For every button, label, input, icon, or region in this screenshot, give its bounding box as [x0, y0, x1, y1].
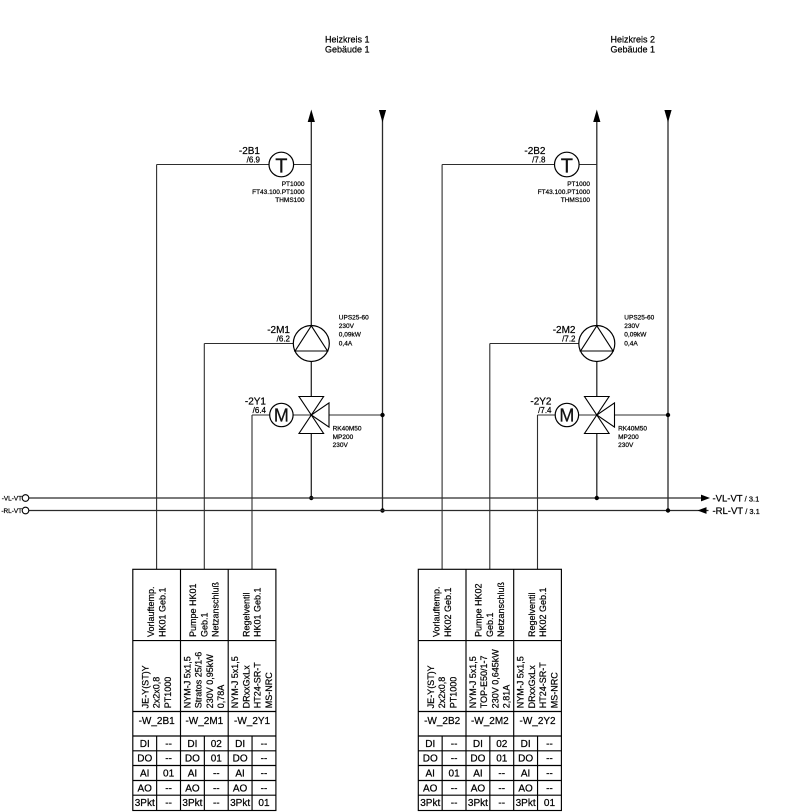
- svg-text:Heizkreis 1: Heizkreis 1: [325, 34, 370, 44]
- svg-text:230V: 230V: [618, 442, 634, 449]
- arrow up, supply flow direction circuit 1: [308, 110, 315, 123]
- svg-text:HT24-SR-T: HT24-SR-T: [538, 662, 548, 709]
- junction valve line / return pipe circuit 2: [666, 413, 670, 417]
- svg-text:NYM-J 5x1,5: NYM-J 5x1,5: [516, 656, 526, 708]
- svg-text:AO: AO: [518, 783, 533, 794]
- svg-text:02: 02: [211, 739, 223, 750]
- svg-text:--: --: [546, 754, 553, 765]
- svg-text:--: --: [498, 768, 505, 779]
- svg-text:DRxxGxLx: DRxxGxLx: [241, 665, 251, 709]
- svg-text:230V 0,95kW: 230V 0,95kW: [205, 654, 215, 709]
- svg-text:DI: DI: [521, 739, 531, 750]
- svg-text:Regelventil: Regelventil: [527, 592, 537, 637]
- temperature sensor -2B2: [555, 152, 580, 177]
- svg-text:MP200: MP200: [618, 434, 639, 441]
- svg-text:0,09kW: 0,09kW: [339, 332, 362, 339]
- svg-text:--: --: [261, 783, 268, 794]
- svg-text:T: T: [561, 156, 573, 178]
- svg-text:HK02 Geb.1: HK02 Geb.1: [443, 587, 453, 637]
- svg-text:3Pkt: 3Pkt: [182, 798, 202, 809]
- svg-text:01: 01: [258, 798, 270, 809]
- svg-text:Regelventil: Regelventil: [241, 592, 251, 637]
- wire supply pipe 2 (vertical, to -VL-VT): [596, 121, 598, 498]
- svg-text:2x2x0,8: 2x2x0,8: [437, 677, 447, 709]
- svg-text:MS-NRC: MS-NRC: [549, 672, 559, 708]
- svg-text:AI: AI: [426, 768, 435, 779]
- svg-text:FT43.100.PT1000: FT43.100.PT1000: [252, 189, 305, 196]
- svg-text:Pumpe HK02: Pumpe HK02: [474, 583, 484, 637]
- svg-text:/6.2: /6.2: [277, 334, 291, 343]
- svg-text:PT1000: PT1000: [567, 181, 590, 188]
- svg-text:DO: DO: [137, 754, 152, 765]
- svg-text:--: --: [165, 739, 172, 750]
- svg-text:DO: DO: [518, 754, 533, 765]
- svg-text:DI: DI: [473, 739, 483, 750]
- wire valve cable -W_2Y1 horizontal segment: [252, 414, 270, 416]
- junction return pipe 1 / -RL-VT: [380, 508, 384, 512]
- svg-text:-W_2Y2: -W_2Y2: [519, 716, 556, 727]
- svg-text:--: --: [546, 783, 553, 794]
- svg-text:HK01 Geb.1: HK01 Geb.1: [157, 587, 167, 637]
- svg-text:01: 01: [449, 768, 461, 779]
- arrow -RL-VT from sheet 3.1: [698, 507, 707, 514]
- svg-text:AO: AO: [471, 783, 486, 794]
- svg-text:AO: AO: [423, 783, 438, 794]
- svg-text:AI: AI: [235, 768, 244, 779]
- svg-text:-W_2M2: -W_2M2: [471, 716, 509, 727]
- arrow -VL-VT to sheet 3.1: [701, 495, 710, 502]
- wire sensor to supply pipe: [579, 164, 597, 166]
- net -RL-VT main return line: [29, 510, 709, 512]
- svg-text:--: --: [261, 754, 268, 765]
- svg-text:THMS100: THMS100: [275, 197, 305, 204]
- wire sensor cable -W_2B1 vertical drop to table: [156, 165, 158, 570]
- svg-text:/7.8: /7.8: [532, 155, 546, 164]
- svg-text:01: 01: [496, 754, 508, 765]
- wire sensor cable -W_2B2 vertical drop to table: [441, 165, 443, 570]
- svg-text:DO: DO: [185, 754, 200, 765]
- svg-text:Gebäude 1: Gebäude 1: [325, 45, 370, 55]
- svg-text:0,78A: 0,78A: [216, 685, 226, 709]
- wire valve to return pipe: [329, 414, 383, 416]
- svg-text:--: --: [213, 783, 220, 794]
- junction valve line / return pipe circuit 1: [380, 413, 384, 417]
- svg-text:HK01 Geb.1: HK01 Geb.1: [253, 587, 263, 637]
- svg-text:DI: DI: [425, 739, 435, 750]
- svg-text:PT1000: PT1000: [448, 677, 458, 709]
- svg-text:--: --: [546, 768, 553, 779]
- svg-text:/7.2: /7.2: [562, 334, 576, 343]
- svg-text:AI: AI: [188, 768, 197, 779]
- wire valve to return pipe: [615, 414, 669, 416]
- svg-text:NYM-J 5x1,5: NYM-J 5x1,5: [230, 656, 240, 708]
- svg-text:DI: DI: [235, 739, 245, 750]
- svg-text:Geb.1: Geb.1: [485, 612, 495, 637]
- svg-text:--: --: [451, 739, 458, 750]
- svg-text:MP200: MP200: [333, 434, 354, 441]
- svg-text:T: T: [275, 156, 287, 178]
- svg-text:AO: AO: [233, 783, 248, 794]
- svg-text:01: 01: [544, 798, 556, 809]
- svg-text:Netzanschluß: Netzanschluß: [496, 581, 506, 637]
- svg-text:01: 01: [211, 754, 223, 765]
- svg-text:UPS25-60: UPS25-60: [339, 315, 369, 322]
- svg-text:RK40M50: RK40M50: [618, 426, 647, 433]
- svg-text:UPS25-60: UPS25-60: [624, 315, 654, 322]
- arrow up, supply flow direction circuit 2: [593, 110, 600, 123]
- svg-text:DO: DO: [470, 754, 485, 765]
- net -VL-VT main supply line: [29, 497, 702, 499]
- svg-text:DRxxGxLx: DRxxGxLx: [527, 665, 537, 709]
- svg-text:3Pkt: 3Pkt: [230, 798, 250, 809]
- svg-text:--: --: [213, 798, 220, 809]
- svg-text:M: M: [274, 405, 289, 425]
- svg-text:NYM-J 5x1,5: NYM-J 5x1,5: [183, 656, 193, 708]
- wire valve cable -W_2Y1 vertical drop to table: [251, 415, 253, 569]
- svg-text:RK40M50: RK40M50: [333, 426, 362, 433]
- svg-text:-RL-VT: -RL-VT: [1, 508, 22, 515]
- valve -2Y1 (3-way mixing valve): [299, 397, 324, 416]
- svg-text:/7.4: /7.4: [538, 406, 552, 415]
- svg-text:Pumpe HK01: Pumpe HK01: [188, 583, 198, 637]
- svg-text:--: --: [498, 798, 505, 809]
- svg-text:-W_2B2: -W_2B2: [424, 716, 461, 727]
- wire valve actuator to valve body: [579, 414, 597, 416]
- svg-text:AO: AO: [185, 783, 200, 794]
- svg-text:0,4A: 0,4A: [624, 340, 638, 347]
- svg-text:0,4A: 0,4A: [339, 340, 353, 347]
- wire pump cable -W_2M1 vertical drop to table: [203, 344, 205, 570]
- wire return pipe 2 (vertical, to -RL-VT): [667, 111, 669, 511]
- svg-text:AI: AI: [140, 768, 149, 779]
- svg-text:Geb.1: Geb.1: [199, 612, 209, 637]
- wire pump cable -W_2M1 horizontal segment: [204, 343, 293, 345]
- svg-text:2x2x0,8: 2x2x0,8: [152, 677, 162, 709]
- svg-text:3Pkt: 3Pkt: [468, 798, 488, 809]
- junction supply pipe 1 / -VL-VT: [309, 496, 313, 500]
- svg-text:--: --: [451, 798, 458, 809]
- svg-text:-W_2B1: -W_2B1: [139, 716, 176, 727]
- svg-text:JE-Y(ST)Y: JE-Y(ST)Y: [140, 665, 150, 708]
- svg-text:DO: DO: [423, 754, 438, 765]
- cable table HK01: [133, 569, 276, 810]
- wire sensor to supply pipe: [294, 164, 312, 166]
- terminal circle -RL-VT left: [22, 507, 29, 514]
- valve -2Y2 (3-way mixing valve): [585, 397, 610, 416]
- svg-text:01: 01: [163, 768, 175, 779]
- svg-text:PT1000: PT1000: [163, 677, 173, 709]
- svg-text:--: --: [451, 754, 458, 765]
- svg-text:--: --: [165, 798, 172, 809]
- temperature sensor -2B1: [269, 152, 294, 177]
- svg-text:DI: DI: [140, 739, 150, 750]
- pump -2M1 (circle with triangle): [293, 326, 329, 362]
- svg-text:--: --: [165, 754, 172, 765]
- svg-text:230V: 230V: [333, 442, 349, 449]
- pump -2M2 (circle with triangle): [579, 326, 615, 362]
- svg-text:DO: DO: [233, 754, 248, 765]
- svg-text:-VL-VT: -VL-VT: [2, 496, 22, 503]
- svg-text:230V 0,645kW: 230V 0,645kW: [490, 649, 500, 709]
- svg-text:HK02 Geb.1: HK02 Geb.1: [538, 587, 548, 637]
- arrow down, return flow direction circuit 1: [379, 110, 386, 123]
- junction supply pipe 2 / -VL-VT: [595, 496, 599, 500]
- terminal circle -VL-VT left: [22, 495, 29, 502]
- arrow down, return flow direction circuit 2: [664, 110, 671, 123]
- svg-text:230V: 230V: [624, 323, 640, 330]
- cable table HK02: [418, 569, 561, 810]
- svg-text:AO: AO: [138, 783, 153, 794]
- svg-text:THMS100: THMS100: [561, 197, 591, 204]
- wire supply pipe 1 (vertical, to -VL-VT): [310, 121, 312, 498]
- wire pump cable -W_2M2 horizontal segment: [490, 343, 579, 345]
- svg-text:--: --: [498, 783, 505, 794]
- svg-text:2,81A: 2,81A: [502, 685, 512, 709]
- svg-text:MS-NRC: MS-NRC: [264, 672, 274, 708]
- svg-text:/6.4: /6.4: [253, 406, 267, 415]
- svg-text:NYM-J 5x1,5: NYM-J 5x1,5: [468, 656, 478, 708]
- wire valve cable -W_2Y2 horizontal segment: [538, 414, 556, 416]
- svg-text:AI: AI: [473, 768, 482, 779]
- wire sensor cable -W_2B2 horizontal segment: [442, 164, 554, 166]
- wire pump cable -W_2M2 vertical drop to table: [489, 344, 491, 570]
- wire valve cable -W_2Y2 vertical drop to table: [537, 415, 539, 569]
- svg-text:-VL-VT / 3.1: -VL-VT / 3.1: [713, 493, 760, 504]
- svg-text:DI: DI: [187, 739, 197, 750]
- svg-text:Vorlauftemp.: Vorlauftemp.: [432, 586, 442, 637]
- svg-text:--: --: [213, 768, 220, 779]
- svg-text:02: 02: [496, 739, 508, 750]
- junction return pipe 2 / -RL-VT: [666, 508, 670, 512]
- svg-text:--: --: [451, 783, 458, 794]
- svg-text:--: --: [261, 768, 268, 779]
- svg-text:-W_2M1: -W_2M1: [185, 716, 223, 727]
- svg-text:Heizkreis 2: Heizkreis 2: [611, 34, 656, 44]
- svg-text:Vorlauftemp.: Vorlauftemp.: [146, 586, 156, 637]
- svg-text:Netzanschluß: Netzanschluß: [211, 581, 221, 637]
- svg-text:230V: 230V: [339, 323, 355, 330]
- svg-text:Gebäude 1: Gebäude 1: [611, 45, 656, 55]
- svg-text:--: --: [546, 739, 553, 750]
- svg-text:PT1000: PT1000: [282, 181, 305, 188]
- svg-text:Stratos 25/1-6: Stratos 25/1-6: [194, 652, 204, 709]
- svg-text:-W_2Y1: -W_2Y1: [234, 716, 271, 727]
- svg-text:TOP-E50/1-7: TOP-E50/1-7: [479, 655, 489, 708]
- svg-text:FT43.100.PT1000: FT43.100.PT1000: [538, 189, 591, 196]
- svg-text:JE-Y(ST)Y: JE-Y(ST)Y: [426, 665, 436, 708]
- svg-text:--: --: [261, 739, 268, 750]
- svg-text:3Pkt: 3Pkt: [420, 798, 440, 809]
- motor actuator M for valve -2Y2: [555, 403, 578, 426]
- svg-text:/6.9: /6.9: [247, 155, 261, 164]
- wire valve actuator to valve body: [293, 414, 311, 416]
- svg-text:3Pkt: 3Pkt: [516, 798, 536, 809]
- svg-text:HT24-SR-T: HT24-SR-T: [253, 662, 263, 709]
- wire sensor cable -W_2B1 horizontal segment: [157, 164, 269, 166]
- svg-text:-RL-VT / 3.1: -RL-VT / 3.1: [713, 506, 760, 517]
- motor actuator M for valve -2Y1: [270, 403, 293, 426]
- wire return pipe 1 (vertical, to -RL-VT): [382, 111, 384, 511]
- svg-text:0,09kW: 0,09kW: [624, 332, 647, 339]
- svg-text:--: --: [165, 783, 172, 794]
- svg-text:3Pkt: 3Pkt: [135, 798, 155, 809]
- svg-text:AI: AI: [521, 768, 530, 779]
- svg-text:M: M: [559, 405, 574, 425]
